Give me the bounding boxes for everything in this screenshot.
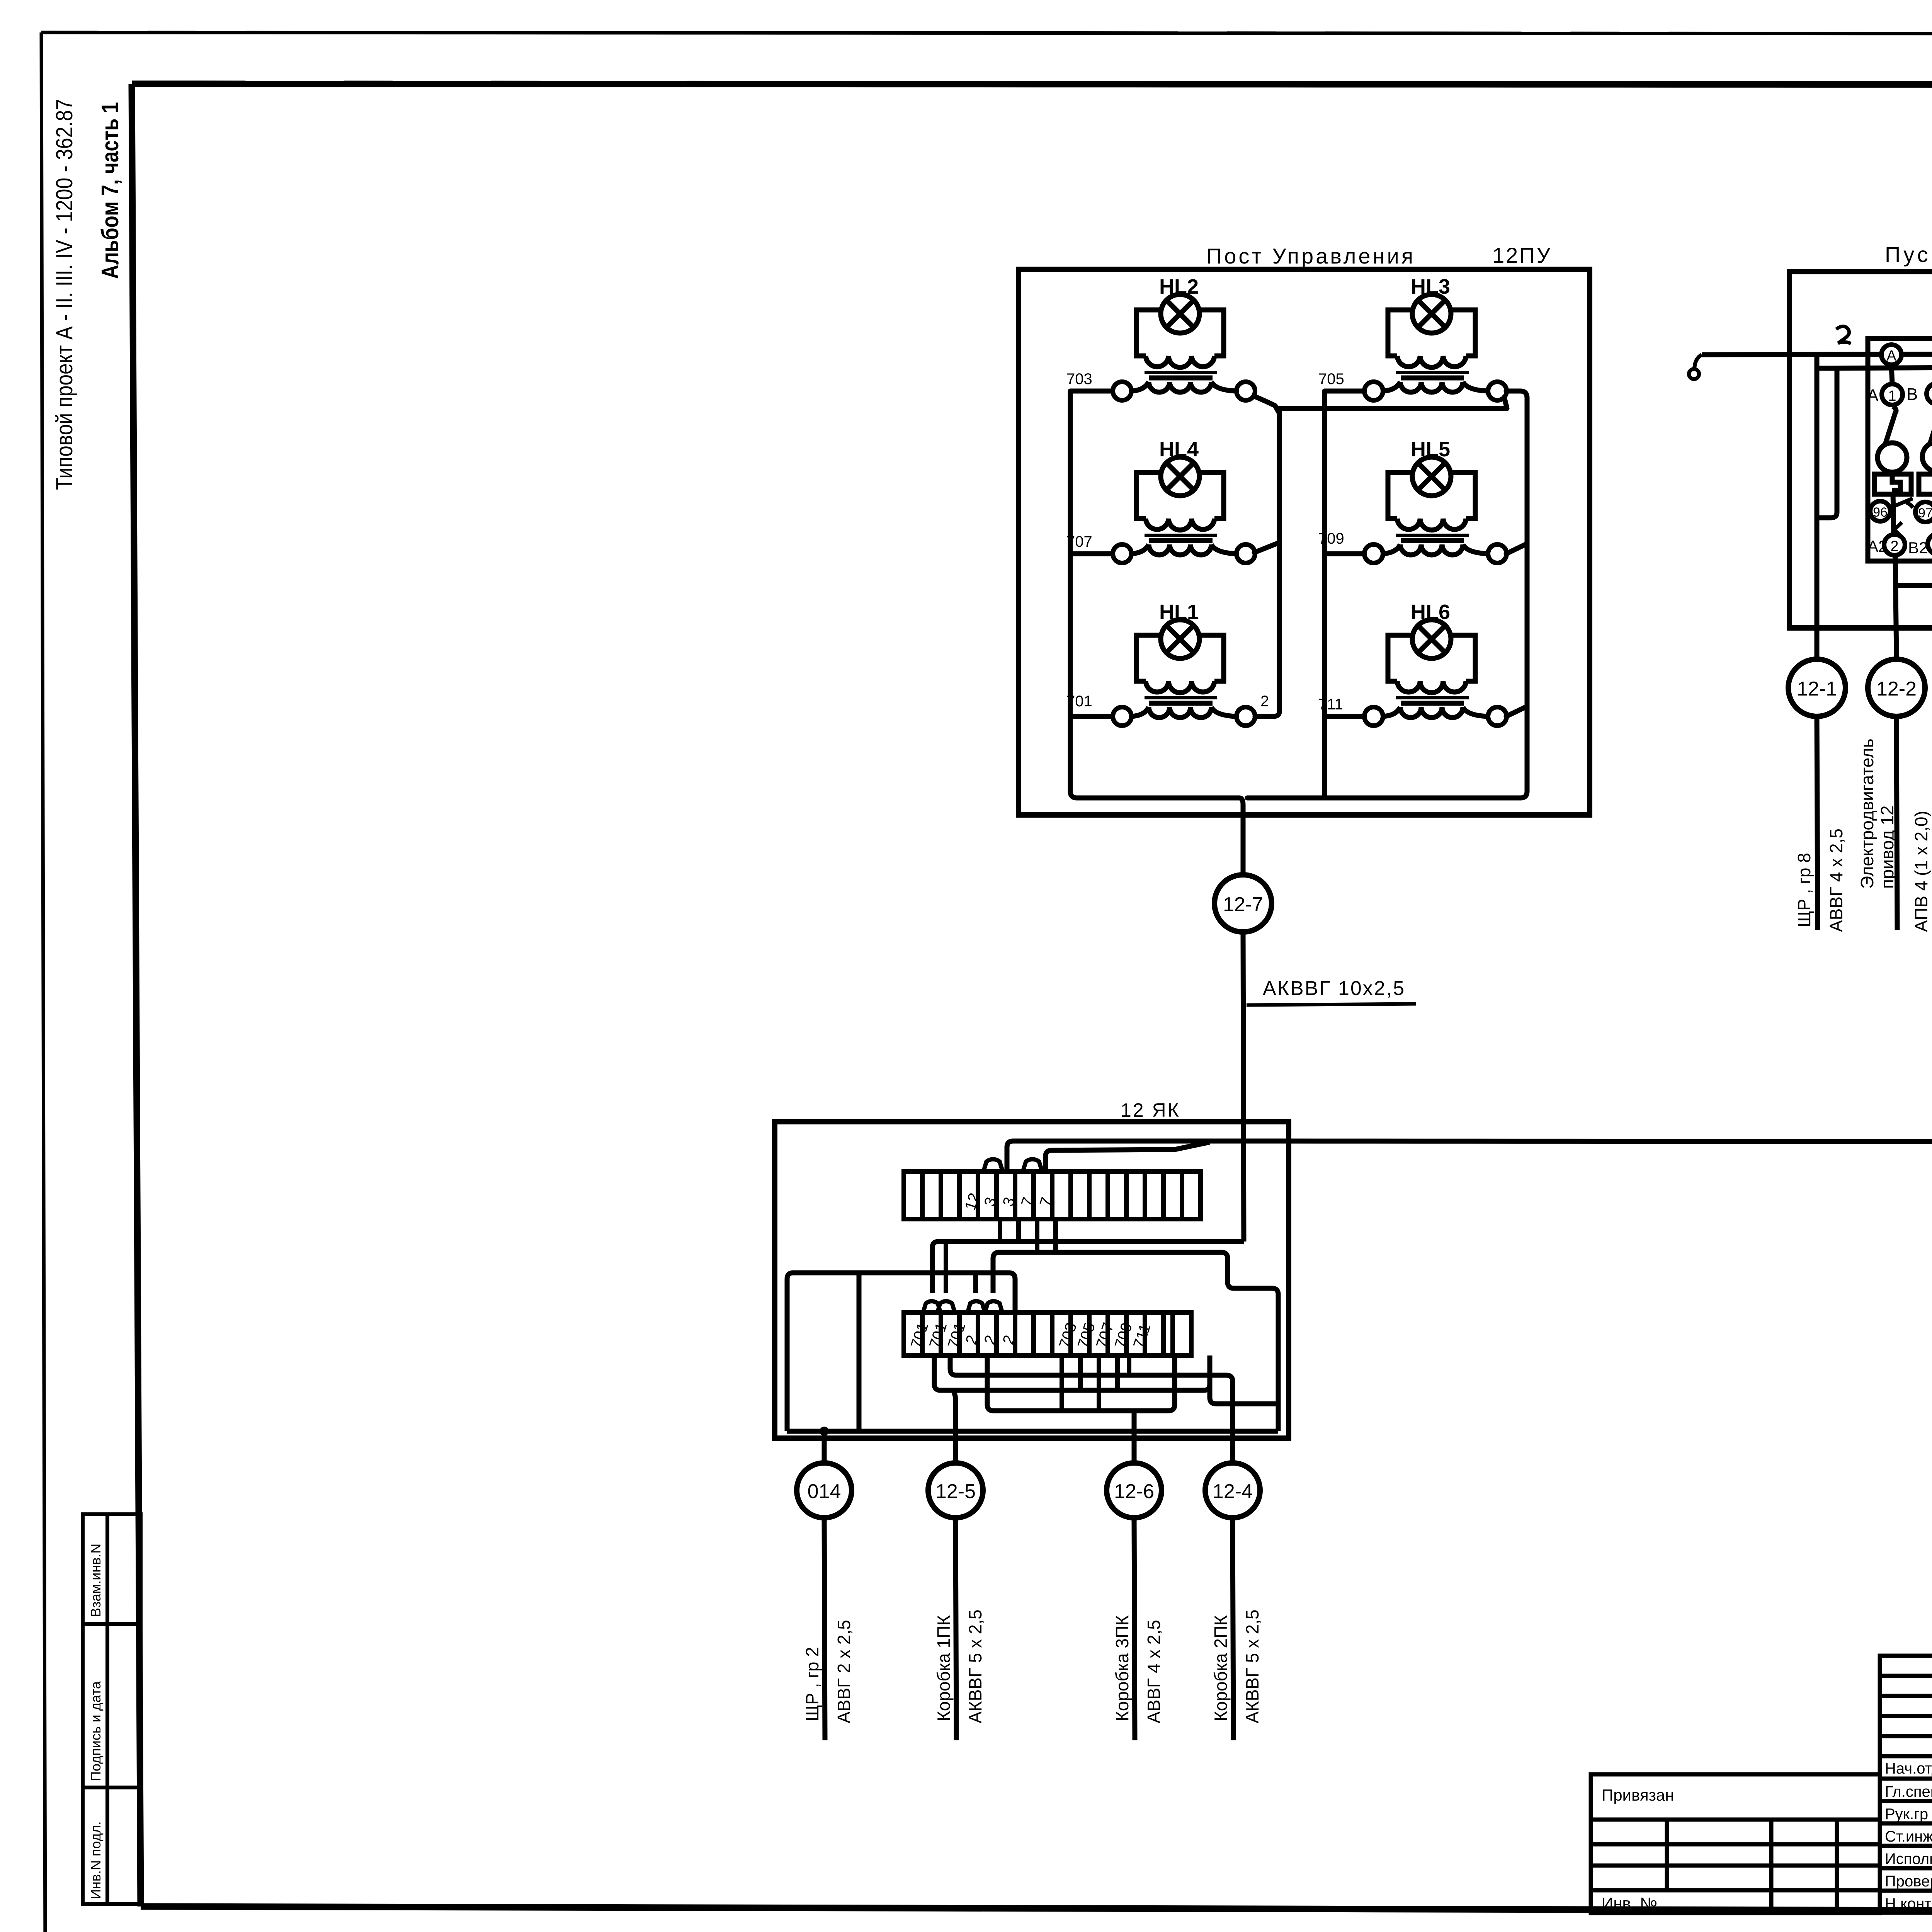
cable circle 12-1 xyxy=(1788,659,1845,716)
wire 12-5 cable drop xyxy=(956,1518,956,1740)
wire stub 703 xyxy=(1060,1355,1064,1411)
svg-text:Коробка 3ПК: Коробка 3ПК xyxy=(1112,1615,1132,1721)
left attachment table Привязан xyxy=(1591,1774,1880,1913)
wire stub 711 xyxy=(1127,1355,1131,1375)
wire 014 drop xyxy=(822,1431,827,1462)
wire stub cell9 xyxy=(1053,1219,1058,1252)
wire bottom gather left xyxy=(1239,798,1243,875)
svg-text:12-7: 12-7 xyxy=(1223,893,1263,916)
wire HL3 right terminal to right bus xyxy=(1325,391,1527,798)
feeder hook end xyxy=(1689,355,1702,379)
svg-text:12-2: 12-2 xyxy=(1876,678,1917,700)
contact terminal 3 xyxy=(1927,383,1932,404)
svg-text:HL4: HL4 xyxy=(1159,438,1199,461)
wire right column row2 link xyxy=(1325,551,1364,556)
svg-text:Гл.спец.: Гл.спец. xyxy=(1885,1783,1932,1800)
overload element B xyxy=(1922,442,1932,471)
cable label underline xyxy=(1247,1004,1416,1005)
svg-text:014: 014 xyxy=(808,1480,841,1503)
wire phase A horizontal xyxy=(1702,354,1932,417)
wire bus B1 xyxy=(950,1355,1233,1462)
wire stub 709 xyxy=(1115,1355,1120,1390)
svg-text:АКВВГ 5 х 2,5: АКВВГ 5 х 2,5 xyxy=(1242,1609,1262,1723)
motor terminal 4 xyxy=(1928,534,1932,554)
svg-text:Привязан: Привязан xyxy=(1602,1786,1674,1804)
cable circle 014 xyxy=(797,1463,852,1518)
svg-text:Пост Управления: Пост Управления xyxy=(1206,244,1415,268)
svg-text:АКВВГ 5 х 2,5: АКВВГ 5 х 2,5 xyxy=(965,1609,985,1723)
svg-text:96: 96 xyxy=(1873,505,1888,520)
svg-text:Подпись и дата: Подпись и дата xyxy=(88,1681,104,1781)
svg-text:Пускатель: Пускатель xyxy=(1885,242,1932,267)
wire 12-5 drop xyxy=(953,1390,956,1462)
wire right bus of left column xyxy=(1255,408,1279,716)
wire stub cell7 xyxy=(1016,1219,1021,1242)
cable circle 12-6 xyxy=(1107,1463,1162,1518)
contact blade 1 xyxy=(1884,406,1896,447)
wire HL2 right terminal to bus xyxy=(1254,396,1279,413)
svg-text:12-5: 12-5 xyxy=(935,1480,976,1503)
wire stub 705 xyxy=(1078,1355,1083,1390)
svg-text:АПВ 4 (1 х 2,0): АПВ 4 (1 х 2,0) xyxy=(1911,811,1931,932)
svg-text:привод 12: привод 12 xyxy=(1877,806,1897,889)
wire 12-6 drop xyxy=(1132,1411,1137,1462)
svg-text:Н.контр.: Н.контр. xyxy=(1885,1895,1932,1912)
wire phase BC horizontal xyxy=(1817,367,1932,384)
wire stub cell8 xyxy=(1035,1219,1039,1252)
wire rail R1 xyxy=(932,1242,1244,1293)
lamp HL6 xyxy=(1364,620,1507,726)
junction box 12YAK xyxy=(775,1122,1289,1438)
wire feeder second vertical xyxy=(1817,368,1837,518)
control post box 12PU xyxy=(1019,269,1590,815)
svg-text:Электродвигатель: Электродвигатель xyxy=(1857,738,1877,889)
svg-text:АВВГ 2 х 2,5: АВВГ 2 х 2,5 xyxy=(834,1620,854,1723)
contact blade 3 xyxy=(1929,406,1932,446)
cable circle 12-2 xyxy=(1868,659,1925,716)
wire bus B3 xyxy=(987,1355,1175,1411)
svg-text:В: В xyxy=(1906,385,1918,404)
svg-text:АКВВГ 10х2,5: АКВВГ 10х2,5 xyxy=(1263,977,1405,1000)
svg-text:Провер.: Провер. xyxy=(1885,1873,1932,1890)
overload element A xyxy=(1878,443,1907,472)
wire feeder down to 12-1 xyxy=(1815,354,1820,659)
wire 12-6 cable drop xyxy=(1134,1518,1135,1740)
strip labels lower xyxy=(908,1321,1154,1350)
wire heater A down xyxy=(1893,494,1894,534)
svg-text:Коробка 2ПК: Коробка 2ПК xyxy=(1211,1615,1231,1721)
svg-text:А: А xyxy=(1867,386,1879,405)
wire bottom rail xyxy=(787,1429,1278,1434)
wire 014 cable drop xyxy=(824,1518,825,1740)
title block signature table xyxy=(1880,1656,1932,1913)
wire left column row3 link xyxy=(1070,714,1112,719)
cable circle 12-5 xyxy=(928,1463,983,1518)
wire left column row2 link xyxy=(1070,551,1112,556)
left margin stamp table xyxy=(83,1514,141,1904)
wire HL5 right terminal link xyxy=(1506,544,1527,554)
svg-text:12-4: 12-4 xyxy=(1213,1480,1253,1503)
svg-text:Взам.инв.N: Взам.инв.N xyxy=(88,1544,104,1617)
svg-text:Коробка 1ПК: Коробка 1ПК xyxy=(934,1615,954,1721)
wire cross link row1 xyxy=(1279,397,1507,408)
wire hump riser xyxy=(944,1242,948,1293)
svg-text:ЩР , гр 8: ЩР , гр 8 xyxy=(1794,853,1814,927)
contactor box xyxy=(1868,338,1932,561)
lamp HL2 xyxy=(1113,294,1255,400)
strip2 hump 2 xyxy=(937,1301,955,1313)
wire 12-2 drop xyxy=(1896,716,1897,930)
wire stub 707 xyxy=(1097,1355,1101,1411)
svg-text:Ст.инж.: Ст.инж. xyxy=(1885,1828,1932,1845)
wire bus B2 xyxy=(934,1355,1210,1390)
heater A xyxy=(1874,474,1911,494)
strip2 hump 4 xyxy=(985,1301,1002,1313)
svg-text:Инв. №: Инв. № xyxy=(1602,1894,1657,1912)
contact terminal 1 xyxy=(1882,384,1903,405)
wire A circle to contact 1 xyxy=(1891,365,1892,384)
svg-text:12 ЯК: 12 ЯК xyxy=(1121,1099,1180,1121)
lamp HL3 xyxy=(1364,294,1507,400)
svg-text:Нач.отд.: Нач.отд. xyxy=(1885,1760,1932,1777)
terminal strip upper xyxy=(904,1172,1201,1219)
svg-text:HL5: HL5 xyxy=(1411,438,1450,461)
svg-text:12ПУ: 12ПУ xyxy=(1492,243,1552,267)
svg-text:АВВГ 4 х 2,5: АВВГ 4 х 2,5 xyxy=(1144,1620,1164,1723)
svg-text:HL2: HL2 xyxy=(1159,275,1199,298)
wire left bus of right column xyxy=(1325,391,1364,798)
wire terminal 2 to cable 12-2 xyxy=(1895,555,1896,659)
terminal strip lower xyxy=(904,1313,1191,1355)
svg-text:А2: А2 xyxy=(1867,537,1887,555)
row labels xyxy=(1885,1760,1932,1912)
svg-text:1: 1 xyxy=(1888,388,1896,404)
wire HL6 right terminal link xyxy=(1506,706,1527,716)
wire riser to 12-3 run xyxy=(1007,1141,1247,1172)
wire bottom gather right xyxy=(1247,796,1325,801)
svg-text:АВВГ 4 х 2,5: АВВГ 4 х 2,5 xyxy=(1826,828,1846,932)
wire left bus of left column xyxy=(1070,391,1239,798)
cable circle 12-4 xyxy=(1205,1463,1260,1518)
strip labels upper xyxy=(962,1186,1056,1213)
svg-text:Альбом 7, часть 1: Альбом 7, часть 1 xyxy=(97,102,124,279)
wire stub cell6 xyxy=(998,1219,1002,1242)
junction dot 014 xyxy=(820,1427,829,1436)
wire riser B merge xyxy=(1046,1142,1209,1172)
starter box 12P xyxy=(1789,272,1932,628)
node A circle xyxy=(1881,345,1901,365)
svg-text:Типовой проект А - II. III.: Типовой проект А - II. III. IV - 1200 - … xyxy=(51,99,77,490)
wire left loop xyxy=(787,1273,1015,1431)
svg-text:705: 705 xyxy=(1318,371,1344,388)
svg-text:А: А xyxy=(1886,348,1896,364)
note mark 2 xyxy=(1836,327,1851,344)
svg-text:В2: В2 xyxy=(1908,539,1928,557)
motor terminal 2 xyxy=(1884,534,1905,555)
svg-text:97: 97 xyxy=(1918,506,1932,520)
wire inner left riser xyxy=(857,1273,862,1431)
svg-text:ЩР , гр 2: ЩР , гр 2 xyxy=(802,1647,822,1721)
lamp HL5 xyxy=(1364,457,1507,563)
strip2 hump 1 xyxy=(923,1301,940,1313)
thermal contact 97 xyxy=(1915,502,1932,522)
svg-text:12-6: 12-6 xyxy=(1114,1480,1154,1503)
cable circle 12-7 xyxy=(1214,875,1272,932)
wire 12-1 drop xyxy=(1817,716,1818,930)
thermal latch symbol left xyxy=(1890,522,1904,543)
lamp HL1 xyxy=(1113,620,1255,726)
svg-text:Инв.N подл.: Инв.N подл. xyxy=(88,1821,104,1899)
wire rail R2 hook xyxy=(993,1252,1278,1431)
lamp HL4 xyxy=(1113,457,1255,563)
svg-text:12-1: 12-1 xyxy=(1797,678,1837,700)
wire hump riser 2 xyxy=(973,1273,978,1293)
thermal contact 96 xyxy=(1870,501,1890,521)
heater B xyxy=(1919,474,1932,494)
wire right column row3 link xyxy=(1325,714,1364,719)
svg-text:HL6: HL6 xyxy=(1411,600,1450,624)
svg-text:HL1: HL1 xyxy=(1159,600,1199,624)
svg-text:Рук.гр: Рук.гр xyxy=(1885,1806,1928,1823)
wire HL4 right terminal link xyxy=(1254,543,1279,553)
svg-text:Исполн.: Исполн. xyxy=(1885,1850,1932,1867)
cable clamp hump B xyxy=(1023,1159,1042,1172)
wire 12-4 cable drop xyxy=(1233,1518,1233,1740)
wire hook to strip2 xyxy=(1210,1355,1278,1404)
wire 12-3 drop to long run xyxy=(1247,716,1932,1141)
svg-text:HL3: HL3 xyxy=(1411,275,1450,298)
strip2 hump 3 xyxy=(968,1301,985,1313)
thermal blade 96-97 xyxy=(1890,498,1913,508)
cable clamp hump A xyxy=(983,1159,1003,1172)
wire terminal 4 jog xyxy=(1897,554,1932,585)
svg-text:2: 2 xyxy=(1260,693,1269,710)
wire 12-7 down to junction box xyxy=(1243,932,1244,1242)
svg-text:2: 2 xyxy=(1890,538,1898,554)
svg-text:703: 703 xyxy=(1066,371,1092,388)
